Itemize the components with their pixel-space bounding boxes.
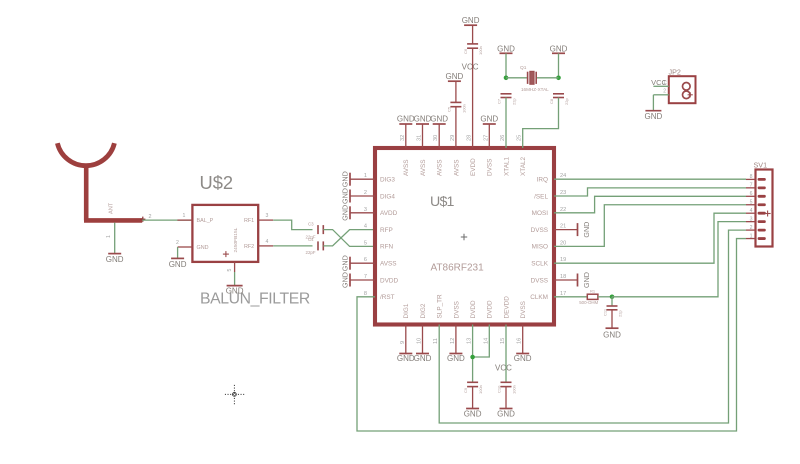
svg-text:GND: GND bbox=[106, 255, 124, 264]
svg-text:2450FB15L: 2450FB15L bbox=[233, 227, 239, 252]
wire gnd to node XTAL1 bbox=[505, 53, 507, 78]
ground above crystal right bbox=[550, 44, 568, 53]
SV1 pin 5 bbox=[746, 199, 766, 206]
wire /SEL net bbox=[554, 188, 746, 196]
svg-text:1: 1 bbox=[183, 213, 186, 219]
svg-text:4: 4 bbox=[364, 224, 367, 230]
wire U$1 pin 28 VCC net bbox=[472, 48, 474, 148]
ground above crystal left bbox=[497, 44, 515, 53]
wire U$1 pin 31 to gnd bbox=[422, 124, 424, 148]
svg-text:BALUN_FILTER: BALUN_FILTER bbox=[200, 291, 310, 308]
capacitor C6 bbox=[463, 44, 483, 55]
svg-text:1: 1 bbox=[364, 173, 367, 179]
svg-text:17: 17 bbox=[560, 291, 566, 297]
U$1 pin 15 DEVDD bbox=[500, 296, 510, 344]
svg-text:GND: GND bbox=[550, 44, 568, 53]
svg-text:GND: GND bbox=[497, 409, 515, 418]
svg-text:3: 3 bbox=[266, 213, 269, 219]
ground bbox=[414, 114, 432, 124]
ground at U$1 pin 21 bbox=[578, 222, 592, 238]
balun pin 1 BAL_P bbox=[177, 219, 192, 221]
wire resistor to junction bbox=[598, 296, 612, 298]
svg-text:2: 2 bbox=[750, 225, 753, 231]
capacitor C9 bbox=[463, 382, 483, 394]
svg-text:12: 12 bbox=[450, 338, 456, 344]
wire MOSI net bbox=[554, 196, 746, 213]
svg-text:JP2: JP2 bbox=[669, 68, 681, 77]
capacitor C10 bbox=[497, 382, 517, 394]
svg-text:GND: GND bbox=[447, 354, 465, 363]
wire U$1 pin 14 to pin 13 node bbox=[473, 325, 490, 358]
svg-text:7: 7 bbox=[364, 274, 367, 280]
ground bbox=[462, 16, 480, 25]
svg-text:GND: GND bbox=[446, 72, 464, 81]
svg-text:C9: C9 bbox=[463, 387, 468, 393]
wire cap to gnd bbox=[472, 387, 474, 409]
U$1 pin 13 DVDD bbox=[467, 300, 477, 344]
svg-text:9: 9 bbox=[400, 341, 406, 344]
svg-text:DVDD: DVDD bbox=[470, 300, 477, 318]
svg-text:GND: GND bbox=[645, 112, 663, 121]
svg-text:2: 2 bbox=[176, 240, 179, 246]
U$1 pin 11 SLP_TR bbox=[433, 294, 443, 344]
wire RF2 to cap bbox=[273, 245, 312, 247]
ground bbox=[430, 114, 448, 124]
capacitor C3 bbox=[317, 225, 319, 234]
wire IRQ net bbox=[554, 178, 746, 180]
svg-text:VCC: VCC bbox=[462, 62, 479, 71]
wire SLP_TR net to SV1 pin2 bbox=[439, 230, 746, 423]
U$1 pin 16 DVSS bbox=[517, 301, 527, 344]
wire capacitor to gnd bbox=[472, 25, 474, 44]
ground bbox=[514, 354, 532, 364]
svg-text:DIG2: DIG2 bbox=[420, 303, 427, 318]
svg-text:BAL_P: BAL_P bbox=[197, 218, 214, 224]
svg-text:GND: GND bbox=[414, 354, 432, 363]
svg-text:27: 27 bbox=[483, 135, 489, 141]
svg-text:100n: 100n bbox=[478, 46, 483, 55]
svg-text:GND: GND bbox=[414, 114, 432, 123]
wire cap to RFN crossing bbox=[323, 230, 375, 247]
wire MISO net bbox=[554, 205, 746, 247]
svg-text:GND: GND bbox=[169, 260, 187, 269]
wire CLKM to SV1 pin3 bbox=[612, 222, 746, 297]
svg-text:6: 6 bbox=[364, 257, 367, 263]
wire RF1 to cap bbox=[273, 220, 312, 230]
wire crystal right bbox=[536, 77, 558, 79]
header JP2 box bbox=[669, 76, 696, 103]
svg-text:2: 2 bbox=[364, 190, 367, 196]
wire balun gnd bbox=[177, 247, 179, 258]
U$1 pin 30 AVSS bbox=[433, 135, 443, 176]
svg-text:GND: GND bbox=[462, 16, 480, 25]
svg-text:4: 4 bbox=[750, 208, 753, 214]
svg-text:C10: C10 bbox=[497, 385, 502, 393]
U$1 pin 7 DVDD bbox=[350, 274, 398, 284]
U$1 pin 26 XTAL1 bbox=[500, 135, 510, 176]
svg-text:CLKM: CLKM bbox=[530, 294, 548, 301]
svg-text:AT86RF231: AT86RF231 bbox=[431, 263, 485, 274]
svg-text:GND: GND bbox=[341, 272, 350, 288]
svg-text:/RST: /RST bbox=[380, 294, 395, 301]
capacitor C7 bbox=[497, 94, 517, 105]
svg-text:5: 5 bbox=[364, 240, 367, 246]
svg-text:C5: C5 bbox=[446, 106, 451, 112]
svg-text:C11: C11 bbox=[603, 308, 608, 316]
wire U$1 pin 30 to gnd bbox=[438, 124, 440, 148]
ground below balun pin2 bbox=[171, 257, 184, 259]
SV1 origin cross bbox=[765, 213, 771, 215]
U$1 pin 18 DVSS bbox=[531, 274, 578, 284]
wire U$1 pin 13 down bbox=[472, 325, 474, 383]
U$1 pin 17 CLKM bbox=[530, 291, 566, 301]
svg-text:4: 4 bbox=[266, 239, 269, 245]
svg-text:GND: GND bbox=[341, 205, 350, 221]
balun origin cross bbox=[223, 253, 229, 255]
ground at U$1 pin 18 bbox=[578, 272, 592, 288]
wire cap to gnd bbox=[505, 387, 507, 409]
ground bbox=[397, 114, 415, 124]
svg-text:DVSS: DVSS bbox=[453, 301, 460, 318]
svg-text:23: 23 bbox=[560, 190, 566, 196]
wire cap to RFP crossing bbox=[323, 230, 375, 246]
svg-text:13: 13 bbox=[467, 338, 473, 344]
svg-text:AVSS: AVSS bbox=[420, 159, 427, 176]
wire CLKM pin to resistor bbox=[554, 296, 587, 298]
svg-text:29: 29 bbox=[450, 135, 456, 141]
svg-text:14: 14 bbox=[483, 338, 489, 344]
svg-text:VCC: VCC bbox=[495, 364, 512, 373]
capacitor C8 bbox=[549, 94, 569, 105]
ground bbox=[414, 354, 432, 364]
svg-text:DVDD: DVDD bbox=[380, 277, 398, 284]
ground below antenna bbox=[108, 253, 121, 255]
svg-text:SV1: SV1 bbox=[754, 161, 768, 170]
svg-text:GND: GND bbox=[341, 188, 350, 204]
svg-text:GND: GND bbox=[514, 354, 532, 363]
antenna E1 bbox=[57, 143, 114, 166]
svg-text:5: 5 bbox=[750, 199, 753, 205]
wire ANT net bbox=[142, 219, 192, 221]
svg-text:DIG4: DIG4 bbox=[380, 193, 395, 200]
svg-text:EVDD: EVDD bbox=[470, 158, 477, 176]
balun pin 4 RF2 bbox=[258, 245, 273, 247]
svg-text:6: 6 bbox=[750, 191, 753, 197]
svg-text:16MHZ-XTAL: 16MHZ-XTAL bbox=[521, 87, 549, 92]
JP2 pin 2 GND bbox=[653, 89, 690, 99]
U$1 pin 28 EVDD bbox=[467, 135, 477, 176]
svg-text:22p: 22p bbox=[564, 98, 569, 105]
svg-text:1: 1 bbox=[750, 233, 753, 239]
svg-text:C4: C4 bbox=[308, 237, 314, 242]
ground at U$1 pin 6 bbox=[341, 255, 351, 271]
svg-text:AVSS: AVSS bbox=[380, 261, 397, 268]
crystal Q1 bbox=[520, 65, 549, 92]
ground bbox=[446, 72, 464, 81]
svg-text:GND: GND bbox=[497, 44, 515, 53]
svg-text:U$2: U$2 bbox=[200, 172, 234, 193]
svg-text:AVDD: AVDD bbox=[380, 210, 398, 217]
svg-text:GND: GND bbox=[197, 245, 209, 251]
svg-text:DVDD: DVDD bbox=[487, 300, 494, 318]
U$1 pin 21 DVSS bbox=[531, 224, 578, 234]
ground bbox=[603, 328, 621, 339]
svg-text:RF2: RF2 bbox=[244, 244, 254, 250]
SV1 pin 6 bbox=[746, 191, 766, 198]
svg-text:3: 3 bbox=[364, 207, 367, 213]
junction CLKM node bbox=[610, 295, 615, 300]
svg-text:RFN: RFN bbox=[380, 244, 394, 251]
svg-text:25: 25 bbox=[517, 135, 523, 141]
ground at U$1 pin 3 bbox=[341, 205, 351, 221]
wire cap to U$1 pin 25 bbox=[523, 98, 559, 149]
svg-text:GND: GND bbox=[603, 330, 621, 339]
svg-text:DEVDD: DEVDD bbox=[503, 296, 510, 319]
svg-text:20: 20 bbox=[560, 240, 566, 246]
svg-text:22: 22 bbox=[560, 207, 566, 213]
svg-text:C7: C7 bbox=[497, 98, 502, 104]
svg-text:1: 1 bbox=[106, 235, 112, 238]
svg-text:Q1: Q1 bbox=[520, 65, 527, 71]
wire U$1 pin 10 to gnd bbox=[422, 325, 424, 354]
wire U$1 pin 27 to gnd bbox=[488, 124, 490, 148]
svg-text:28: 28 bbox=[467, 135, 473, 141]
svg-text:100n: 100n bbox=[512, 385, 517, 394]
U$1 pin 29 AVSS bbox=[450, 135, 460, 176]
wire U$1 pin 12 to gnd bbox=[455, 325, 457, 354]
svg-text:22p: 22p bbox=[512, 98, 517, 105]
U$1 pin 9 DIG1 bbox=[400, 303, 410, 344]
ic origin cross bbox=[461, 236, 467, 238]
SV1 pin 3 bbox=[746, 216, 766, 223]
wire U$1 pin 15 VCC net bbox=[505, 325, 507, 383]
ground bbox=[464, 409, 482, 419]
U$1 pin 10 DIG2 bbox=[417, 303, 427, 344]
SV1 pin 1 bbox=[746, 233, 766, 240]
JP2 pin 1 VCC bbox=[653, 80, 690, 90]
svg-text:GND: GND bbox=[480, 114, 498, 123]
ground at U$1 pin 2 bbox=[341, 188, 351, 204]
SV1 pin 8 bbox=[746, 174, 766, 181]
svg-text:GND: GND bbox=[397, 354, 415, 363]
balun pin 2 GND bbox=[178, 246, 193, 248]
svg-text:IRQ: IRQ bbox=[537, 177, 548, 184]
wire U$1 pin 29 to capacitor bbox=[455, 107, 457, 148]
capacitor C4 bbox=[317, 241, 319, 250]
svg-text:GND: GND bbox=[430, 114, 448, 123]
wire /RST net to SV1 pin1 bbox=[357, 239, 746, 431]
ic U$1 AT86RF231 box bbox=[375, 148, 554, 325]
connector SV1 box bbox=[756, 170, 773, 247]
wire SCLK net bbox=[554, 213, 746, 263]
svg-text:31: 31 bbox=[417, 135, 423, 141]
ground bbox=[645, 111, 663, 122]
ground at U$1 pin 7 bbox=[341, 272, 351, 288]
svg-text:DIG1: DIG1 bbox=[403, 303, 410, 318]
wire U$1 pin 32 to gnd bbox=[405, 124, 407, 148]
svg-text:GND: GND bbox=[582, 222, 591, 238]
SV1 pin 7 bbox=[746, 183, 766, 190]
wire balun bottom gnd bbox=[234, 272, 236, 286]
resistor R1 500-OHM bbox=[579, 288, 598, 305]
U$1 pin 25 XTAL2 bbox=[517, 135, 527, 176]
svg-text:24: 24 bbox=[560, 173, 566, 179]
svg-text:RF1: RF1 bbox=[244, 218, 254, 224]
svg-text:100n: 100n bbox=[461, 104, 466, 113]
svg-text:GND: GND bbox=[341, 255, 350, 271]
U$1 pin 3 AVDD bbox=[350, 207, 398, 217]
svg-text:19: 19 bbox=[560, 257, 566, 263]
wire gnd to node XTAL2 bbox=[558, 53, 560, 78]
svg-text:18: 18 bbox=[560, 274, 566, 280]
svg-text:DVSS: DVSS bbox=[487, 159, 494, 176]
antenna pin 1 mark bbox=[140, 218, 145, 220]
node XTAL2 junction bbox=[556, 76, 561, 81]
svg-text:32: 32 bbox=[400, 135, 406, 141]
wire cap to gnd bbox=[611, 310, 613, 328]
svg-text:2: 2 bbox=[663, 89, 666, 95]
svg-text:MOSI: MOSI bbox=[532, 210, 549, 217]
svg-text:R1: R1 bbox=[590, 288, 596, 293]
svg-text:100n: 100n bbox=[478, 385, 483, 394]
ground bbox=[447, 354, 465, 364]
svg-text:8: 8 bbox=[750, 174, 753, 180]
U$1 pin 20 MISO bbox=[532, 240, 567, 250]
svg-text:C8: C8 bbox=[549, 98, 554, 104]
svg-text:22pF: 22pF bbox=[306, 250, 316, 255]
U$1 pin 12 DVSS bbox=[450, 301, 460, 344]
JP2 origin cross bbox=[688, 94, 693, 96]
svg-text:10: 10 bbox=[417, 338, 423, 344]
svg-text:/SEL: /SEL bbox=[534, 193, 548, 200]
balun pin 3 RF1 bbox=[258, 219, 273, 221]
svg-text:DVSS: DVSS bbox=[531, 277, 548, 284]
U$1 pin 6 AVSS bbox=[350, 257, 397, 267]
wire cap to U$1 pin 26 bbox=[505, 98, 507, 149]
svg-text:DIG3: DIG3 bbox=[380, 177, 395, 184]
svg-text:500-OHM: 500-OHM bbox=[579, 300, 598, 305]
svg-text:7: 7 bbox=[750, 183, 753, 189]
svg-text:2: 2 bbox=[149, 214, 152, 220]
svg-text:15: 15 bbox=[500, 338, 506, 344]
U$1 pin 32 AVSS bbox=[400, 135, 410, 176]
svg-text:AVSS: AVSS bbox=[453, 159, 460, 176]
balun pin 5 bottom bbox=[234, 262, 236, 272]
svg-text:SLP_TR: SLP_TR bbox=[437, 294, 444, 319]
U$1 pin 31 AVSS bbox=[417, 135, 427, 176]
svg-text:AVSS: AVSS bbox=[403, 159, 410, 176]
svg-text:22p: 22p bbox=[618, 310, 623, 317]
svg-text:ANT: ANT bbox=[109, 202, 115, 214]
sheet origin marker bbox=[225, 385, 245, 405]
U$1 pin 24 IRQ bbox=[537, 173, 567, 183]
svg-text:RFP: RFP bbox=[380, 227, 393, 234]
SV1 pin 4 bbox=[746, 208, 766, 215]
U$1 pin 5 RFN bbox=[364, 240, 394, 250]
U$1 pin 23 /SEL bbox=[534, 190, 566, 200]
wire JP2 to gnd bbox=[652, 95, 654, 111]
svg-text:XTAL1: XTAL1 bbox=[503, 156, 510, 176]
svg-text:GND: GND bbox=[226, 287, 244, 296]
svg-text:GND: GND bbox=[582, 272, 591, 288]
svg-text:GND: GND bbox=[464, 409, 482, 418]
ground bbox=[480, 114, 498, 124]
wire capacitor to gnd bbox=[455, 81, 457, 102]
node XTAL1 junction bbox=[504, 76, 509, 81]
SV1 pin 2 bbox=[746, 225, 766, 232]
svg-text:GND: GND bbox=[341, 171, 350, 187]
U$1 pin 22 MOSI bbox=[532, 207, 567, 217]
svg-text:DVSS: DVSS bbox=[531, 227, 548, 234]
ground below balun pin5 bbox=[227, 285, 243, 287]
U$1 pin 2 DIG4 bbox=[350, 190, 395, 200]
U$1 pin 27 DVSS bbox=[483, 135, 493, 176]
capacitor C11 bbox=[603, 297, 623, 317]
U$1 pin 19 SCLK bbox=[531, 257, 566, 267]
svg-text:SCLK: SCLK bbox=[531, 261, 548, 268]
svg-text:21: 21 bbox=[560, 224, 566, 230]
svg-text:26: 26 bbox=[500, 135, 506, 141]
U$1 pin 8 /RST bbox=[364, 291, 395, 301]
svg-text:DVSS: DVSS bbox=[520, 301, 527, 318]
balun U$2 box bbox=[192, 205, 258, 262]
ground bbox=[397, 354, 415, 364]
svg-text:AVSS: AVSS bbox=[437, 159, 444, 176]
svg-text:C6: C6 bbox=[463, 48, 468, 54]
svg-text:8: 8 bbox=[364, 291, 367, 297]
svg-text:U$1: U$1 bbox=[430, 194, 455, 210]
svg-text:C3: C3 bbox=[308, 221, 314, 226]
svg-text:30: 30 bbox=[433, 135, 439, 141]
U$1 pin 1 DIG3 bbox=[350, 173, 395, 183]
U$1 pin 14 DVDD bbox=[483, 300, 493, 344]
junction pins 13-14 bbox=[470, 355, 475, 360]
wire crystal left bbox=[506, 77, 528, 79]
capacitor C5 bbox=[446, 102, 466, 113]
wire antenna gnd drop bbox=[114, 223, 116, 254]
svg-text:MISO: MISO bbox=[532, 244, 548, 251]
ground bbox=[497, 409, 515, 419]
svg-text:16: 16 bbox=[517, 338, 523, 344]
ground at U$1 pin 1 bbox=[341, 171, 351, 187]
svg-text:GND: GND bbox=[397, 114, 415, 123]
svg-text:11: 11 bbox=[433, 338, 439, 344]
wire U$1 pin 16 to gnd bbox=[522, 325, 524, 354]
svg-text:5: 5 bbox=[227, 269, 233, 272]
svg-text:VCC: VCC bbox=[651, 78, 667, 87]
svg-text:XTAL2: XTAL2 bbox=[520, 156, 527, 176]
wire U$1 pin 9 to gnd bbox=[405, 325, 407, 354]
svg-text:3: 3 bbox=[750, 216, 753, 222]
U$1 pin 4 RFP bbox=[364, 224, 393, 234]
